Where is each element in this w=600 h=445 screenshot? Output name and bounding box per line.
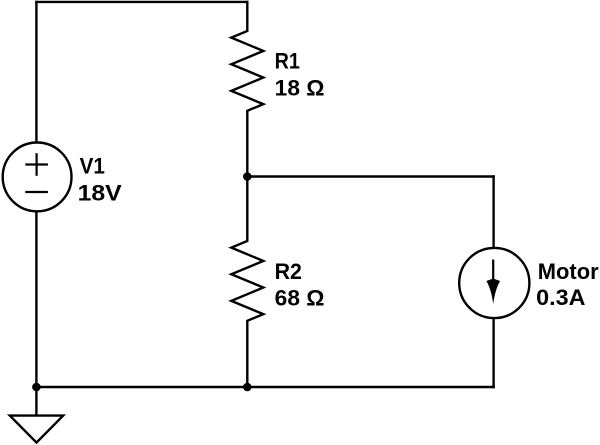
svg-text:68 Ω: 68 Ω	[275, 286, 325, 311]
svg-text:R1: R1	[275, 49, 300, 74]
svg-text:18 Ω: 18 Ω	[275, 75, 325, 100]
svg-text:V1: V1	[80, 153, 105, 178]
svg-text:0.3A: 0.3A	[536, 285, 585, 310]
svg-text:18V: 18V	[78, 181, 122, 206]
svg-text:R2: R2	[275, 259, 302, 284]
svg-text:Motor: Motor	[538, 259, 599, 284]
